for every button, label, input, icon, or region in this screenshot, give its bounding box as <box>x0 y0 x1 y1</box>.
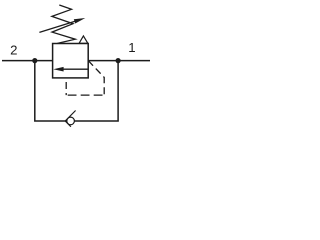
pilot line dashed bottom horizontal <box>66 94 104 96</box>
valve body square <box>53 44 89 78</box>
flow arrow inside valve <box>53 67 88 72</box>
spring <box>52 5 75 43</box>
check valve seat <box>65 111 75 127</box>
wire port 2 line <box>2 60 53 62</box>
check valve ball circle <box>67 117 75 125</box>
pilot line dashed <box>88 61 104 96</box>
wire port 1 line <box>88 60 150 62</box>
pilot line dashed left vertical <box>65 78 67 95</box>
adjustment arrow <box>39 18 85 32</box>
svg-text:1: 1 <box>128 40 135 55</box>
spring seat triangle <box>79 36 88 44</box>
relief loop wire <box>35 61 118 121</box>
svg-text:2: 2 <box>10 42 17 57</box>
junction dot right <box>116 58 121 63</box>
junction dot left <box>32 58 37 63</box>
